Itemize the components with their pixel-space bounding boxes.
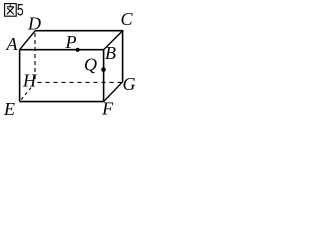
- svg-text:E: E: [3, 99, 15, 118]
- svg-text:D: D: [27, 14, 41, 34]
- svg-text:C: C: [121, 9, 134, 29]
- svg-text:A: A: [6, 34, 19, 54]
- svg-text:F: F: [101, 99, 114, 118]
- svg-text:P: P: [65, 32, 77, 52]
- svg-text:B: B: [105, 43, 116, 63]
- svg-text:H: H: [22, 71, 37, 91]
- svg-text:5: 5: [17, 2, 24, 20]
- svg-text:G: G: [123, 74, 136, 94]
- svg-text:Q: Q: [84, 55, 97, 75]
